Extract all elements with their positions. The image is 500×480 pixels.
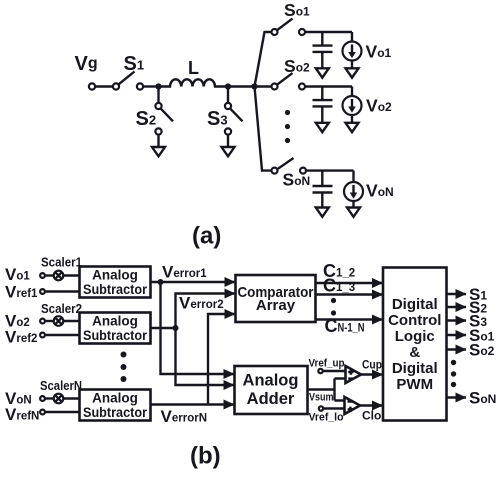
output wire SoN — [447, 396, 467, 398]
wire Vsum from adder splitting to comparators — [308, 379, 346, 401]
svg-text:So2: So2 — [469, 341, 495, 360]
svg-text:S3: S3 — [207, 108, 228, 130]
analog subtractor 2 box — [80, 313, 151, 344]
svg-text:SoN: SoN — [469, 389, 496, 408]
wire Vg to S1 pole — [95, 85, 113, 87]
svg-text:VoN: VoN — [366, 181, 394, 201]
wire subtractor2 output — [151, 327, 176, 329]
svg-text:L: L — [188, 58, 199, 78]
svg-text:Verror2: Verror2 — [179, 294, 224, 313]
wire S2 to ground — [157, 135, 159, 147]
wire S1 to node A — [143, 85, 158, 87]
node A junction — [155, 83, 161, 89]
input terminal Vref_up — [318, 369, 322, 373]
switch S2 top contact — [155, 103, 161, 109]
svg-text:Vo1: Vo1 — [5, 265, 30, 284]
wire Vref_up to comparator Cup — [323, 370, 346, 372]
wire Clo to digital logic — [360, 404, 383, 406]
svg-text:Vref_up: Vref_up — [309, 358, 345, 370]
switch S1 left contact — [89, 83, 95, 89]
wire SoN to output rail N — [306, 169, 354, 171]
digital control logic box — [383, 268, 447, 421]
capacitor CN — [313, 171, 333, 208]
wire node C down to SoN branch — [255, 87, 272, 171]
capacitor C1 — [313, 32, 333, 68]
wire scaler2 to subtractor2 — [63, 320, 79, 322]
input terminal Vref2 — [40, 333, 45, 338]
output wire So2 — [447, 348, 467, 350]
svg-text:Array: Array — [256, 297, 296, 314]
wire node A down to S2 — [157, 87, 159, 104]
input terminal Vo1 — [40, 273, 45, 278]
switch S3 top contact — [225, 103, 231, 109]
comparator Clo — [345, 397, 361, 414]
svg-text:So2: So2 — [284, 56, 310, 76]
svg-text:Subtractor: Subtractor — [83, 405, 148, 420]
switch So2 right contact — [299, 84, 305, 90]
comparator Cup — [346, 366, 362, 383]
svg-text:Vo1: Vo1 — [366, 42, 392, 62]
ground under S3 — [222, 147, 235, 156]
ground under VoN source — [347, 208, 360, 217]
wire CN-1_N to digital logic — [316, 318, 383, 320]
analog subtractor 1 box — [80, 267, 151, 298]
switch S1 throw contact — [137, 83, 143, 89]
wire VrefN to subtractorN — [45, 411, 80, 413]
svg-text:Vg: Vg — [75, 53, 98, 75]
wire Verror2 up to comparator array — [176, 294, 236, 329]
svg-text:Subtractor: Subtractor — [83, 282, 148, 297]
output wire S3 — [447, 319, 467, 321]
wire VerrorN up to comparator array — [208, 314, 235, 405]
svg-text:Scaler2: Scaler2 — [41, 301, 82, 316]
input terminal Vo2 — [40, 319, 45, 324]
svg-text:VrefN: VrefN — [5, 405, 39, 424]
ellipsis dots between So2 and SoN — [285, 110, 290, 143]
svg-text:Digital: Digital — [392, 360, 438, 377]
ground under S2 — [152, 147, 165, 156]
svg-text:Vo2: Vo2 — [366, 96, 392, 116]
ellipsis dots between C outputs — [331, 298, 336, 316]
wire Vref2 to subtractor2 — [45, 334, 80, 336]
digital control logic text — [388, 296, 441, 393]
svg-text:Analog: Analog — [92, 268, 138, 283]
ground under CN — [316, 208, 329, 217]
svg-text:Vref2: Vref2 — [5, 328, 37, 347]
scalerN multiplier symbol — [54, 394, 64, 404]
wire Vo2 to scaler2 — [45, 320, 54, 322]
switch S1 pole contact — [113, 83, 119, 89]
output wire So1 — [447, 334, 467, 336]
switch So1 right contact — [299, 29, 305, 35]
input terminal Vref1 — [40, 289, 45, 294]
wire node B down to S3 — [227, 87, 229, 104]
analog subtractor N box — [80, 390, 151, 421]
wire So2 to output rail 2 — [305, 85, 352, 87]
wire C1_3 to digital logic — [316, 293, 383, 295]
svg-text:&: & — [409, 344, 420, 361]
ground under Vo2 source — [346, 123, 359, 132]
ground under C2 — [316, 123, 329, 132]
wire node C up to So1 branch — [255, 32, 272, 87]
svg-text:Adder: Adder — [247, 390, 295, 408]
junction Verror1 — [158, 279, 164, 285]
switch SoN right contact — [300, 168, 306, 174]
switch So2 blade — [277, 73, 293, 85]
node C junction — [251, 83, 257, 89]
ellipsis dots between So2 and SoN outputs — [451, 360, 456, 387]
svg-text:Analog: Analog — [92, 314, 138, 329]
svg-text:(b): (b) — [190, 443, 221, 470]
svg-text:ScalerN: ScalerN — [40, 378, 82, 393]
switch So1 left contact — [272, 29, 278, 35]
svg-text:Digital: Digital — [392, 296, 438, 313]
input terminal Vref_lo — [319, 406, 323, 410]
switch SoN blade — [277, 158, 293, 169]
svg-text:Analog: Analog — [243, 372, 299, 390]
wire node C to So2 — [255, 85, 272, 87]
svg-text:Vref_lo: Vref_lo — [309, 412, 344, 424]
current source load Vo2 — [343, 87, 362, 123]
svg-text:Vsum: Vsum — [309, 392, 334, 404]
current source load VoN — [344, 171, 363, 208]
svg-text:VerrorN: VerrorN — [161, 407, 208, 426]
output wire S2 — [447, 306, 467, 308]
svg-text:Scaler1: Scaler1 — [41, 255, 82, 270]
wire scaler1 to subtractor1 — [63, 274, 79, 276]
switch S1 blade — [119, 72, 135, 85]
svg-text:S2: S2 — [136, 108, 157, 130]
analog adder box — [235, 366, 308, 414]
output wire S1 — [447, 293, 467, 295]
capacitor C2 — [313, 87, 333, 123]
svg-text:Subtractor: Subtractor — [83, 328, 148, 343]
ground under C1 — [316, 68, 329, 77]
scaler1 multiplier symbol — [54, 271, 64, 281]
wire Vref1 to subtractor1 — [45, 290, 80, 292]
svg-text:So1: So1 — [284, 0, 310, 20]
svg-text:Vref1: Vref1 — [5, 283, 38, 302]
scaler2 multiplier symbol — [54, 316, 64, 326]
wire Verror2 down to adder — [176, 328, 235, 385]
wire node B to node C — [228, 85, 255, 87]
wire VerrorN to adder — [151, 403, 235, 405]
inductor L — [159, 79, 229, 86]
wire Verror1 to comparator array — [151, 281, 236, 283]
wire S3 to ground — [227, 135, 229, 147]
current source load Vo1 — [343, 32, 362, 68]
switch S2 bottom contact — [155, 128, 161, 134]
ground under Vo1 source — [346, 68, 359, 77]
svg-text:PWM: PWM — [396, 376, 433, 393]
switch S3 bottom contact — [225, 128, 231, 134]
input terminal VoN — [40, 396, 45, 401]
ellipsis dots between subtractor2 and subtractorN — [121, 352, 127, 383]
svg-text:(a): (a) — [192, 223, 221, 250]
wire Cup to digital logic — [361, 373, 383, 375]
switch S3 blade — [230, 109, 242, 122]
wire Vref_lo to comparator Clo — [323, 407, 344, 409]
svg-text:Logic: Logic — [395, 328, 435, 345]
wire So1 to output rail 1 — [305, 31, 352, 33]
wire Vo1 to scaler1 — [45, 274, 54, 276]
svg-text:Clo: Clo — [362, 409, 381, 423]
svg-text:Cup: Cup — [362, 358, 382, 372]
wire Verror1 down to adder — [161, 282, 235, 374]
svg-text:Verror1: Verror1 — [162, 263, 207, 282]
node B junction — [225, 83, 231, 89]
input terminal VrefN — [40, 410, 45, 415]
switch So1 blade — [277, 19, 293, 31]
wire scalerN to subtractorN — [63, 397, 79, 399]
switch S2 blade — [161, 109, 173, 122]
svg-text:Analog: Analog — [92, 391, 138, 406]
wire C1_2 to digital logic — [316, 282, 383, 284]
svg-text:Control: Control — [388, 312, 441, 329]
switch SoN left contact — [272, 168, 278, 174]
junction Verror2 — [173, 325, 179, 331]
switch So2 left contact — [272, 84, 278, 90]
wire VoN to scalerN — [45, 397, 54, 399]
comparator array box — [236, 275, 316, 322]
